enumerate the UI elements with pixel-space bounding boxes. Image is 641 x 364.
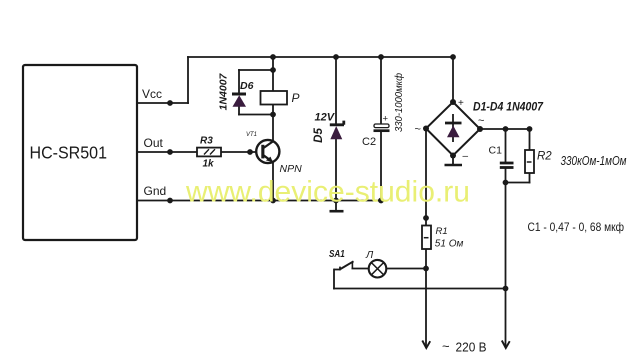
svg-text:–: – bbox=[463, 151, 469, 162]
node base bbox=[247, 149, 253, 155]
node D6 top bbox=[270, 67, 276, 73]
svg-text:+: + bbox=[458, 98, 464, 109]
svg-text:HC-SR501: HC-SR501 bbox=[30, 143, 108, 163]
node bridge bottom bbox=[450, 153, 456, 159]
svg-text:220 В: 220 В bbox=[456, 339, 487, 354]
svg-text:Gnd: Gnd bbox=[144, 184, 167, 198]
node D5-gnd bbox=[333, 198, 339, 204]
node rail corner bbox=[450, 54, 456, 60]
svg-text:R1: R1 bbox=[436, 226, 448, 237]
svg-text:R2: R2 bbox=[537, 151, 552, 163]
wire relay branch vertical bbox=[272, 57, 274, 141]
wire ground rail bbox=[137, 200, 381, 202]
svg-text:C2: C2 bbox=[362, 136, 376, 148]
svg-text:1N4007: 1N4007 bbox=[218, 72, 230, 110]
svg-text:NPN: NPN bbox=[280, 163, 303, 175]
svg-text:~: ~ bbox=[478, 115, 484, 127]
node bridge top bbox=[450, 99, 456, 105]
ground symbol at D5 bbox=[330, 201, 344, 212]
wire bottom mains link bbox=[334, 288, 506, 290]
wire D6 bottom tie bbox=[239, 114, 273, 116]
switch SA1 bbox=[334, 261, 354, 270]
svg-text:VT1: VT1 bbox=[246, 132, 257, 138]
wire C1 top lead bbox=[505, 129, 507, 162]
relay coil P bbox=[261, 91, 288, 105]
mains arrow right bbox=[502, 341, 510, 349]
wire Vcc pin to riser bbox=[137, 102, 188, 104]
node emitter-gnd bbox=[270, 198, 276, 204]
node lamp-R1 bbox=[423, 266, 429, 272]
lamp L bbox=[369, 260, 387, 278]
wire R1 to mains arrow bbox=[425, 249, 427, 347]
svg-text:51 Ом: 51 Ом bbox=[435, 238, 464, 249]
wire D6 cathode lead bbox=[238, 70, 240, 92]
wire Vcc riser bbox=[187, 57, 189, 103]
svg-text:12V: 12V bbox=[315, 111, 336, 123]
node rail-relay bbox=[270, 54, 276, 60]
svg-text:Л: Л bbox=[365, 249, 374, 261]
node Gnd pin bbox=[167, 198, 173, 204]
svg-text:P: P bbox=[292, 91, 300, 105]
wire C1 bottom lead down to mains bbox=[505, 169, 507, 289]
wire C2 branch top bbox=[380, 57, 382, 124]
node R1 top bbox=[423, 215, 429, 221]
diode D6 bbox=[232, 94, 246, 107]
node Out pin bbox=[167, 149, 173, 155]
ground symbol at bridge bbox=[445, 156, 463, 166]
svg-text:www.device-studio.ru: www.device-studio.ru bbox=[185, 176, 470, 209]
node C1-R2 bottom bbox=[503, 180, 509, 186]
node bridge left bbox=[423, 126, 429, 132]
capacitor C1 bbox=[500, 163, 514, 168]
wire right mains drop bbox=[505, 289, 507, 348]
svg-text:330кОм-1мОм: 330кОм-1мОм bbox=[561, 153, 627, 168]
wire switch left drop bbox=[333, 270, 335, 289]
wire D5 branch bottom bbox=[335, 139, 337, 201]
wire R2 top lead bbox=[529, 129, 531, 150]
transistor VT1 bbox=[256, 140, 279, 163]
mains arrow left bbox=[422, 341, 430, 349]
wire bridge AC left / R1 branch bbox=[425, 129, 427, 226]
wire Out pin to R3 bbox=[137, 151, 197, 153]
node rail-D5 bbox=[333, 54, 339, 60]
svg-text:R3: R3 bbox=[200, 136, 213, 147]
wire lamp to R1 line bbox=[386, 268, 426, 270]
resistor R2 bbox=[525, 150, 534, 173]
wire R2 bottom lead bbox=[529, 173, 531, 183]
wire C2 branch bottom bbox=[380, 132, 382, 201]
svg-text:D5: D5 bbox=[313, 128, 325, 143]
capacitor C2 bbox=[374, 124, 390, 131]
wire D6 anode lead bbox=[238, 106, 240, 115]
svg-text:330-1000мкф: 330-1000мкф bbox=[393, 72, 405, 132]
node D6 bottom bbox=[270, 112, 276, 118]
svg-text:D1-D4 1N4007: D1-D4 1N4007 bbox=[473, 102, 544, 114]
node Vcc pin bbox=[167, 100, 173, 106]
node bridge right bbox=[477, 126, 483, 132]
resistor R3 bbox=[197, 148, 221, 157]
wire D5 branch top bbox=[335, 57, 337, 123]
svg-text:+: + bbox=[383, 114, 389, 125]
node C1 top bbox=[503, 126, 509, 132]
svg-text:D6: D6 bbox=[240, 80, 254, 92]
resistor R1 bbox=[422, 226, 431, 250]
wire switch to lamp bbox=[352, 268, 368, 270]
wire R3 to base bbox=[221, 151, 261, 153]
wire emitter to ground rail bbox=[272, 162, 274, 201]
module HC-SR501 box bbox=[23, 65, 137, 240]
node rail-C2 bbox=[378, 54, 384, 60]
wire bridge + feed bbox=[452, 57, 454, 102]
node C2-gnd bbox=[378, 198, 384, 204]
svg-text:1k: 1k bbox=[203, 159, 215, 170]
wire bridge AC right to C1/R2 bbox=[480, 128, 530, 130]
svg-text:Vcc: Vcc bbox=[142, 87, 162, 101]
bridge rectifier D1-D4 bbox=[426, 102, 480, 156]
svg-text:SA1: SA1 bbox=[329, 248, 345, 260]
svg-text:~: ~ bbox=[442, 339, 450, 354]
svg-text:C1 - 0,47 - 0, 68 мкф: C1 - 0,47 - 0, 68 мкф bbox=[528, 220, 625, 234]
node R2 top bbox=[527, 126, 533, 132]
node mains right bbox=[503, 286, 509, 292]
svg-text:Out: Out bbox=[144, 136, 164, 150]
svg-text:C1: C1 bbox=[489, 145, 503, 157]
wire top +12V rail bbox=[188, 56, 453, 58]
svg-text:~: ~ bbox=[415, 124, 421, 136]
wire D6 top tie bbox=[239, 69, 273, 71]
zener diode D5 bbox=[330, 121, 344, 139]
wire R2 bottom tie bbox=[506, 182, 530, 184]
